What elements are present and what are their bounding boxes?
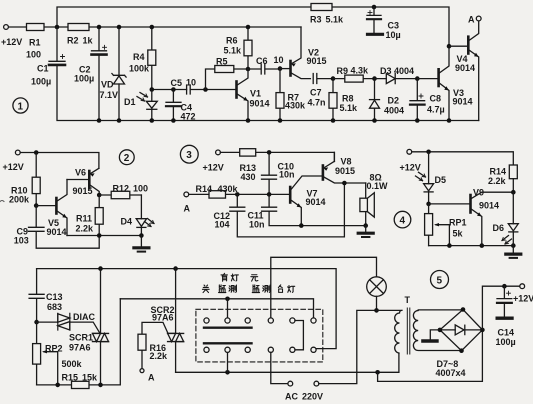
svg-text:2: 2 — [124, 153, 130, 164]
capacitor C14 100u — [497, 286, 512, 316]
svg-text:97A6: 97A6 — [69, 343, 91, 353]
section label 2 — [119, 150, 134, 165]
switch position label tai-deng (desk lamp) — [278, 285, 282, 293]
svg-text:5.1k: 5.1k — [224, 46, 243, 56]
svg-text:5: 5 — [437, 276, 443, 287]
terminal +12V output — [520, 284, 525, 289]
wire +12V rail section 4 — [412, 152, 514, 165]
resistor R2 — [68, 24, 89, 31]
svg-text:100µ: 100µ — [31, 77, 51, 87]
terminal +12V section 3 — [216, 150, 221, 155]
svg-text:3: 3 — [186, 150, 192, 161]
svg-text:+12V: +12V — [400, 162, 421, 172]
transistor V6 9015 — [67, 179, 89, 181]
potentiometer RP1 5k — [428, 204, 430, 246]
svg-text:97A6: 97A6 — [152, 312, 174, 322]
svg-text:1k: 1k — [83, 36, 94, 46]
potentiometer RP2 500k — [36, 322, 38, 385]
svg-text:1: 1 — [18, 102, 24, 113]
svg-text:4004: 4004 — [394, 66, 414, 76]
resistor R16 2.2k — [140, 369, 144, 373]
svg-text:430k: 430k — [218, 184, 239, 194]
wire V7 emitter ground line — [299, 223, 304, 228]
wire bottom ground rail section 1 — [57, 65, 479, 121]
svg-text:2.2k: 2.2k — [150, 351, 169, 361]
wire emitter/ground line section 2 — [67, 235, 141, 237]
svg-text:R2: R2 — [67, 36, 79, 46]
svg-text:9015: 9015 — [307, 56, 327, 66]
resistor R14 430k — [189, 193, 291, 195]
svg-text:10n: 10n — [249, 220, 265, 230]
capacitor C3 10u — [372, 5, 377, 10]
wire +12V input to rail (section 1) — [8, 26, 301, 28]
svg-text:100k: 100k — [129, 64, 150, 74]
capacitor C7 4.7n — [313, 74, 333, 84]
DIAC — [37, 322, 100, 333]
capacitor C11 10n — [262, 194, 366, 225]
svg-text:472: 472 — [181, 112, 196, 122]
transistor V9 9014 — [469, 195, 472, 213]
svg-text:683: 683 — [47, 302, 62, 312]
svg-text:103: 103 — [14, 236, 29, 246]
svg-text:R5: R5 — [216, 57, 228, 67]
terminal +12V section 2 — [15, 150, 20, 155]
switch row1 contacts — [204, 318, 209, 323]
diode D3 4004 — [375, 78, 418, 80]
ground section 4 — [512, 246, 514, 253]
svg-text:4.3k: 4.3k — [351, 66, 370, 76]
svg-text:D3: D3 — [380, 66, 392, 76]
svg-text:R1: R1 — [29, 38, 41, 48]
transistor V2 9015 — [280, 68, 291, 70]
capacitor C6 10 — [248, 64, 280, 74]
svg-text:A: A — [148, 373, 155, 383]
svg-text:10n: 10n — [279, 170, 295, 180]
svg-text:R12: R12 — [113, 184, 130, 194]
capacitor C2 100u — [92, 27, 107, 121]
wire bridge output to +12V — [482, 286, 519, 330]
svg-text:9014: 9014 — [306, 197, 326, 207]
svg-text:R8: R8 — [342, 94, 354, 104]
transistor V5 9014 — [36, 205, 56, 207]
svg-text:+12V: +12V — [513, 294, 533, 304]
resistor R13 — [240, 149, 256, 156]
switch position label jian-ce 2 — [252, 285, 259, 293]
svg-text:V8: V8 — [341, 157, 352, 167]
svg-text:R9: R9 — [337, 66, 349, 76]
terminal A section 3 — [184, 192, 189, 197]
svg-text:9015: 9015 — [73, 186, 93, 196]
svg-text:V6: V6 — [75, 167, 86, 177]
svg-text:500k: 500k — [62, 359, 83, 369]
wire row2 contact4 to AC terminal — [271, 352, 288, 383]
capacitor C5 10 — [187, 85, 191, 94]
svg-text:4.7µ: 4.7µ — [427, 104, 445, 114]
section label 3 — [180, 145, 198, 163]
wire to switch row1 — [120, 299, 313, 318]
svg-text:D6: D6 — [493, 223, 505, 233]
svg-text:C3: C3 — [388, 20, 400, 30]
node V6 collector — [97, 193, 102, 198]
capacitor C13 683 — [29, 269, 44, 323]
svg-text:9014: 9014 — [250, 99, 270, 109]
svg-text:200k: 200k — [9, 195, 30, 205]
resistor R12 — [99, 194, 141, 196]
svg-text:100: 100 — [133, 184, 148, 194]
switch row2 wiper bar — [204, 342, 252, 344]
svg-text:C5: C5 — [171, 78, 183, 88]
speaker 8ohm 0.1W — [365, 183, 367, 226]
node junction R1/R2/C1 — [55, 25, 60, 30]
svg-text:2.2k: 2.2k — [488, 176, 507, 186]
transistor V7 9014 — [289, 187, 292, 203]
svg-text:220V: 220V — [302, 392, 323, 402]
svg-text:4.7n: 4.7n — [308, 98, 326, 108]
scan speck — [0, 201, 4, 202]
resistor R1 — [27, 24, 45, 31]
svg-text:C7: C7 — [310, 88, 322, 98]
svg-text:4007x4: 4007x4 — [436, 368, 466, 378]
transistor V8 9015 — [322, 166, 325, 180]
LED D6 — [512, 192, 514, 245]
node V8 collector / feedback — [342, 181, 347, 186]
node V2 base / R7 — [278, 66, 283, 71]
ground bar bridge left corner — [430, 330, 440, 339]
terminal A output — [476, 16, 481, 21]
svg-text:C8: C8 — [430, 94, 442, 104]
wire lamp branch to row1 contact4 — [271, 257, 377, 318]
wire bracket contacts 5 — [295, 321, 303, 350]
wire AC live rail section 5 — [37, 269, 337, 349]
svg-text:10: 10 — [274, 55, 284, 65]
svg-text:A: A — [184, 204, 191, 214]
capacitor C12 104 — [230, 183, 345, 237]
transistor V3 9014 — [417, 78, 438, 80]
svg-text:C6: C6 — [256, 56, 268, 66]
capacitor C9 103 — [29, 206, 100, 249]
node V9 base — [426, 202, 431, 207]
svg-text:5.1k: 5.1k — [326, 14, 345, 24]
node V5 base — [34, 203, 39, 208]
ground section 3 — [365, 226, 367, 232]
lamp — [367, 277, 387, 297]
capacitor C1 100u — [49, 27, 65, 61]
section label 5 — [431, 271, 449, 289]
wire to bridge DC corner — [378, 330, 483, 382]
switch row2 contacts — [204, 347, 209, 352]
wire +12V rail section 3 — [220, 152, 334, 161]
svg-text:10µ: 10µ — [386, 30, 401, 40]
svg-text:430k: 430k — [285, 101, 306, 111]
svg-text:R14: R14 — [196, 184, 213, 194]
diode D2 4004 — [374, 79, 376, 121]
svg-text:10: 10 — [186, 78, 196, 88]
svg-text:SCR1: SCR1 — [69, 333, 93, 343]
svg-text:A: A — [468, 15, 475, 25]
capacitor C4 472 — [166, 90, 181, 121]
svg-text:100: 100 — [26, 50, 41, 60]
section label 1 — [13, 98, 28, 113]
switch position label wu (none) — [251, 275, 258, 281]
svg-text:T: T — [405, 295, 411, 305]
svg-text:9014: 9014 — [479, 200, 499, 210]
svg-text:5k: 5k — [453, 229, 464, 239]
wire top rail with R3 — [57, 7, 449, 46]
transformer T primary — [395, 310, 402, 353]
wire bottom section 4 — [429, 245, 514, 247]
svg-text:R6: R6 — [226, 36, 238, 46]
svg-text:7.1V: 7.1V — [100, 90, 119, 100]
svg-text:R11: R11 — [76, 214, 92, 224]
svg-text:+12V: +12V — [1, 37, 22, 47]
svg-text:D1: D1 — [124, 97, 136, 107]
resistor R10 — [35, 153, 37, 206]
resistor R5 feedback — [206, 69, 249, 90]
switch dashed box — [196, 309, 323, 362]
svg-text:4: 4 — [400, 216, 406, 227]
svg-text:+12V: +12V — [203, 162, 224, 172]
resistor R8 — [331, 76, 336, 81]
switch row1 wiper bar — [204, 327, 252, 329]
svg-text:+12V: +12V — [3, 162, 24, 172]
resistor R14 2.2k — [509, 165, 517, 179]
svg-text:104: 104 — [215, 220, 230, 230]
svg-text:V1: V1 — [250, 89, 261, 99]
svg-text:R14: R14 — [490, 166, 507, 176]
transformer T secondary — [413, 310, 463, 351]
transistor V4 9014 — [447, 44, 452, 49]
svg-text:AC: AC — [285, 392, 298, 402]
svg-text:0.1W: 0.1W — [367, 181, 389, 191]
svg-text:4004: 4004 — [384, 106, 404, 116]
bridge rectifier D7~8 4007x4 — [440, 310, 483, 351]
svg-text:15k: 15k — [82, 372, 98, 382]
photodiode D1 — [151, 90, 153, 121]
svg-text:RP2: RP2 — [45, 344, 63, 354]
resistor R3 — [311, 4, 332, 11]
node lamp/transformer — [374, 308, 379, 313]
resistor R15 15k — [37, 299, 121, 385]
svg-text:D4: D4 — [121, 217, 133, 227]
svg-text:VD: VD — [101, 80, 114, 90]
svg-text:R15: R15 — [62, 372, 79, 382]
transformer core — [407, 308, 410, 354]
svg-text:DIAC: DIAC — [73, 312, 95, 322]
LED D4 — [140, 195, 142, 236]
svg-text:100µ: 100µ — [496, 337, 516, 347]
switch position label you-deng (has lamp) — [221, 273, 227, 281]
svg-text:9015: 9015 — [335, 166, 355, 176]
svg-text:D5: D5 — [435, 175, 447, 185]
svg-text:RP1: RP1 — [449, 217, 467, 227]
node R9/D2/D3 — [372, 76, 377, 81]
svg-text:C13: C13 — [46, 292, 63, 302]
wire +12V rail section 2 — [20, 153, 99, 169]
node C13/DIAC/RP2 — [34, 320, 39, 325]
wire D1 node to C5 and V1 base — [152, 89, 237, 91]
svg-text:5.1k: 5.1k — [340, 103, 359, 113]
terminal AC right — [314, 381, 319, 386]
terminal AC left — [288, 381, 293, 386]
svg-text:100µ: 100µ — [74, 74, 94, 84]
svg-text:430: 430 — [241, 172, 256, 182]
section label 4 — [394, 211, 411, 228]
triac SCR2 97A6 — [175, 269, 177, 373]
switch position label jian-ce (monitor) — [219, 285, 226, 293]
resistor R4 — [151, 27, 153, 90]
photodiode D5 — [428, 152, 430, 204]
svg-text:C1: C1 — [37, 64, 49, 74]
ground section 2 — [140, 236, 142, 247]
svg-text:9014: 9014 — [47, 227, 67, 237]
resistor R7 — [279, 69, 281, 121]
resistor R9 — [333, 78, 375, 80]
wire SCR2 bottom to transformer — [176, 353, 399, 372]
svg-text:D2: D2 — [388, 96, 400, 106]
switch position label guan (off) — [202, 285, 209, 293]
svg-text:R3: R3 — [310, 14, 322, 24]
triac SCR1 97A6 — [100, 269, 102, 385]
svg-text:9014: 9014 — [453, 97, 473, 107]
svg-text:R4: R4 — [133, 52, 145, 62]
capacitor C10 10n — [267, 150, 272, 155]
resistor R6 — [247, 27, 249, 69]
svg-text:9014: 9014 — [455, 63, 475, 73]
svg-text:V9: V9 — [473, 187, 484, 197]
svg-text:2.2k: 2.2k — [76, 224, 95, 234]
capacitor C8 4.7u — [415, 76, 420, 81]
terminal +12V left — [4, 25, 9, 30]
zener diode VD 7.1V — [118, 27, 120, 121]
wire AC right to lamp node — [319, 310, 375, 383]
terminal +12V section 4 — [407, 149, 412, 154]
transistor V1 9014 — [235, 82, 238, 98]
resistor R11 — [98, 195, 100, 236]
